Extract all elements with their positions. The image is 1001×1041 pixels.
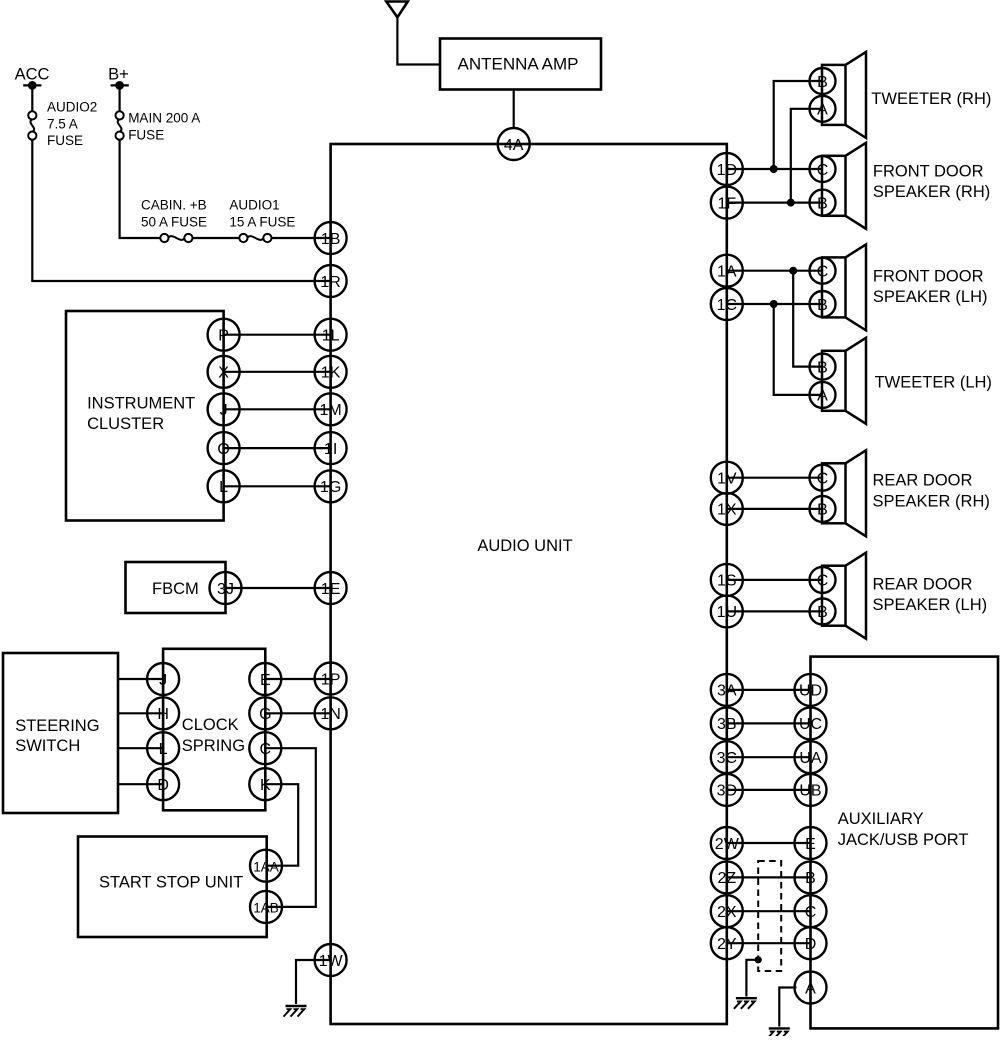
connector 3B (711, 707, 743, 739)
connector 1F (711, 187, 743, 219)
svg-text:X: X (218, 365, 229, 382)
svg-text:TWEETER (RH): TWEETER (RH) (871, 90, 991, 108)
connector 1L (315, 319, 347, 351)
wire 1W to ground (296, 960, 331, 1004)
wire to aux pin E (727, 842, 811, 844)
svg-text:C: C (260, 741, 272, 758)
svg-text:ACC: ACC (15, 66, 50, 84)
wire K to 1AA (265, 784, 298, 866)
connector 1R (315, 265, 347, 297)
svg-text:REAR DOOR: REAR DOOR (873, 472, 973, 490)
pin UB aux (795, 774, 827, 806)
pin C front door LH (810, 258, 836, 284)
ground at shield (734, 998, 757, 1009)
wire ACC to 1R (32, 139, 330, 281)
svg-text:1X: 1X (717, 502, 737, 519)
wire B+ to fuse (118, 85, 120, 111)
svg-text:CLOCK: CLOCK (182, 716, 239, 734)
connector 1P (315, 663, 347, 695)
connector 1K (315, 356, 347, 388)
label AUDIO1 15 A FUSE (229, 198, 295, 230)
wire shield to ground (746, 960, 758, 997)
svg-text:D: D (805, 936, 817, 953)
connector 3A (711, 674, 743, 706)
wire B+ down to fuse row (120, 139, 161, 238)
svg-text:1F: 1F (717, 195, 736, 212)
svg-text:1U: 1U (717, 604, 737, 621)
wire to aux pin UB (727, 789, 811, 791)
svg-text:1N: 1N (320, 706, 340, 723)
wire 1A to front door LH C (727, 270, 823, 272)
pin L instrument cluster (208, 470, 240, 502)
fuse MAIN 200 A (116, 111, 124, 139)
pin L clock spring (147, 732, 179, 764)
fuse AUDIO2 7.5 A (28, 111, 36, 139)
wire between fuses (192, 237, 239, 239)
svg-text:L: L (159, 741, 168, 758)
connector 1E (315, 572, 347, 604)
junction on 1A wire (789, 267, 797, 275)
wire 1U to rear door LH B (727, 610, 823, 612)
fuse CABIN. +B 50 A (160, 234, 192, 242)
wire junction to tweeter LH B (793, 271, 822, 367)
svg-text:2X: 2X (717, 904, 737, 921)
pin D aux (795, 927, 827, 959)
connector 1V (711, 462, 743, 494)
svg-text:1R: 1R (320, 274, 340, 291)
pin B rear door LH (810, 598, 836, 624)
svg-text:3B: 3B (717, 716, 737, 733)
svg-text:K: K (260, 777, 271, 794)
svg-text:3D: 3D (717, 783, 737, 800)
svg-text:FRONT DOOR: FRONT DOOR (873, 268, 984, 286)
label CABIN. +B 50 A FUSE (141, 198, 207, 230)
svg-text:STEERING: STEERING (15, 717, 99, 735)
wire L to 1G (224, 485, 331, 487)
pin UA aux (795, 741, 827, 773)
svg-text:50 A FUSE: 50 A FUSE (141, 214, 207, 229)
pin A tweeter LH (810, 382, 836, 408)
svg-text:REAR DOOR: REAR DOOR (873, 575, 973, 593)
svg-text:1AA: 1AA (253, 860, 279, 875)
pin B aux (795, 861, 827, 893)
svg-text:D: D (157, 777, 169, 794)
wire A to ground (779, 988, 796, 1027)
pin B tweeter RH (810, 68, 836, 94)
wire junction to tweeter RH B (774, 81, 823, 169)
pin X instrument cluster (208, 356, 240, 388)
svg-text:A: A (817, 388, 828, 405)
box AUDIO UNIT (331, 144, 727, 1024)
pin H clock spring (147, 697, 179, 729)
svg-text:1C: 1C (717, 297, 737, 314)
wire to aux pin UD (727, 689, 811, 691)
wire steering switch row 3 (118, 747, 163, 749)
svg-text:H: H (157, 706, 169, 723)
svg-text:L: L (219, 479, 228, 496)
wire P to 1L (224, 334, 331, 336)
box START STOP UNIT (78, 837, 267, 938)
box AUXILIARY JACK/USB PORT (811, 657, 999, 1029)
connector 1X (711, 493, 743, 525)
wire to aux pin C (727, 910, 811, 912)
ground at 1W (284, 1006, 307, 1017)
pin B front door RH (810, 190, 836, 216)
wire junction to tweeter LH A (774, 304, 823, 395)
connector 1G (315, 470, 347, 502)
connector 4A (498, 128, 530, 160)
pin P instrument cluster (208, 319, 240, 351)
wire to aux pin B (727, 876, 811, 878)
svg-text:3A: 3A (717, 683, 737, 700)
svg-text:1E: 1E (321, 581, 341, 598)
wire C to 1AB (265, 748, 316, 907)
connector 1S (711, 564, 743, 596)
connector 1AA (250, 850, 282, 882)
svg-text:C: C (817, 573, 829, 590)
svg-text:FUSE: FUSE (47, 133, 83, 148)
pin C rear door LH (810, 567, 836, 593)
svg-text:3J: 3J (217, 581, 234, 598)
wire to aux pin D (727, 942, 811, 944)
node B+ (108, 66, 129, 90)
wire steering switch row 4 (118, 783, 163, 785)
svg-text:B: B (817, 74, 828, 91)
svg-text:FRONT DOOR: FRONT DOOR (873, 162, 984, 180)
pin B front door LH (810, 291, 836, 317)
svg-text:1L: 1L (322, 328, 340, 345)
svg-text:MAIN 200 A: MAIN 200 A (128, 111, 200, 126)
speaker REAR DOOR SPEAKER (RH) (822, 450, 990, 536)
wire ACC to fuse (31, 85, 33, 111)
svg-text:1AB: 1AB (253, 901, 279, 916)
wire 1C to front door LH B (727, 303, 823, 305)
svg-text:B: B (817, 502, 828, 519)
connector 1N (315, 697, 347, 729)
svg-text:3C: 3C (717, 750, 737, 767)
junction on 1C wire (770, 300, 778, 308)
connector 1I (315, 432, 347, 464)
connector 1B (315, 222, 347, 254)
box ANTENNA AMP (440, 39, 601, 90)
wire O to 1I (224, 447, 331, 449)
svg-text:2W: 2W (715, 836, 740, 853)
svg-text:CLUSTER: CLUSTER (87, 415, 164, 433)
connector 1W (315, 944, 347, 976)
junction on 1F wire (787, 199, 795, 207)
pin A aux (795, 972, 827, 1004)
svg-text:B+: B+ (108, 66, 129, 84)
pin J clock spring (147, 663, 179, 695)
wire to aux pin UC (727, 722, 811, 724)
pin B rear door RH (810, 496, 836, 522)
wire to aux pin UA (727, 756, 811, 758)
svg-text:C: C (805, 904, 817, 921)
pin E aux (795, 827, 827, 859)
connector 2Z (711, 861, 743, 893)
svg-text:A: A (805, 980, 816, 997)
wire steering switch row 1 (118, 678, 163, 680)
label MAIN 200 A FUSE (128, 111, 200, 143)
svg-text:B: B (817, 604, 828, 621)
svg-text:AUDIO1: AUDIO1 (229, 198, 279, 213)
svg-text:E: E (805, 836, 816, 853)
label AUDIO2 7.5 A FUSE (47, 100, 97, 149)
connector 1A (711, 255, 743, 287)
svg-text:SPEAKER (LH): SPEAKER (LH) (873, 288, 988, 306)
antenna symbol (386, 2, 408, 18)
connector 1M (315, 393, 347, 425)
svg-text:7.5 A: 7.5 A (47, 116, 78, 131)
svg-text:2Y: 2Y (717, 936, 737, 953)
svg-text:1D: 1D (717, 162, 737, 179)
pin C rear door RH (810, 465, 836, 491)
junction shield ground (755, 956, 762, 963)
connector 1C (711, 288, 743, 320)
speaker REAR DOOR SPEAKER (LH) (822, 553, 987, 639)
connector 3D (711, 774, 743, 806)
svg-text:SPEAKER (RH): SPEAKER (RH) (873, 183, 990, 201)
pin C clock spring right (249, 732, 281, 764)
svg-text:J: J (220, 402, 228, 419)
svg-text:C: C (817, 162, 829, 179)
svg-text:1V: 1V (717, 471, 737, 488)
pin C front door RH (810, 156, 836, 182)
svg-text:E: E (260, 672, 271, 689)
svg-text:FUSE: FUSE (128, 127, 164, 142)
svg-text:AUXILIARY: AUXILIARY (838, 810, 924, 828)
box CLOCK SPRING (163, 649, 265, 811)
svg-text:SPRING: SPRING (182, 737, 245, 755)
svg-text:1I: 1I (324, 441, 337, 458)
svg-text:START STOP UNIT: START STOP UNIT (99, 873, 243, 891)
svg-text:C: C (817, 471, 829, 488)
svg-text:O: O (217, 441, 229, 458)
wire G to 1N (265, 712, 330, 714)
speaker TWEETER (LH) (822, 338, 992, 424)
fuse AUDIO1 15 A (239, 234, 271, 242)
speaker FRONT DOOR SPEAKER (LH) (822, 244, 988, 330)
connector 2X (711, 895, 743, 927)
svg-text:B: B (817, 359, 828, 376)
svg-text:FBCM: FBCM (152, 580, 199, 598)
svg-text:UA: UA (799, 750, 822, 767)
pin D clock spring (147, 768, 179, 800)
svg-text:SWITCH: SWITCH (15, 737, 80, 755)
wire 1D to front door RH C (727, 168, 823, 170)
wire X to 1K (224, 371, 331, 373)
svg-text:B: B (805, 870, 816, 887)
pin G clock spring right (249, 697, 281, 729)
svg-text:AUDIO UNIT: AUDIO UNIT (477, 537, 572, 555)
svg-text:INSTRUMENT: INSTRUMENT (87, 395, 195, 413)
svg-text:G: G (259, 706, 271, 723)
wire fuse to 1B (271, 237, 330, 239)
pin E clock spring right (249, 663, 281, 695)
svg-text:1M: 1M (319, 402, 341, 419)
svg-text:UB: UB (799, 783, 821, 800)
svg-text:JACK/USB PORT: JACK/USB PORT (838, 831, 969, 849)
svg-text:1K: 1K (321, 365, 341, 382)
speaker TWEETER (RH) (822, 52, 991, 138)
pin B tweeter LH (810, 354, 836, 380)
pin J instrument cluster (208, 393, 240, 425)
wire junction to tweeter RH A (791, 109, 823, 203)
speaker FRONT DOOR SPEAKER (RH) (822, 143, 990, 229)
svg-text:1B: 1B (321, 231, 341, 248)
pin A tweeter RH (810, 96, 836, 122)
connector 3C (711, 741, 743, 773)
wire steering switch row 2 (118, 712, 163, 714)
wire E to 1P (265, 678, 330, 680)
ground at aux A (767, 1028, 790, 1039)
pin UD aux (795, 674, 827, 706)
box FBCM (126, 562, 226, 613)
connector 1U (711, 595, 743, 627)
junction on 1D wire (770, 165, 778, 173)
wire antenna to amp (397, 17, 440, 64)
svg-text:2Z: 2Z (717, 870, 736, 887)
wire J to 1M (224, 408, 331, 410)
svg-text:J: J (159, 672, 167, 689)
wire amp to 4A (513, 90, 515, 129)
pin 3J FBCM (210, 572, 242, 604)
svg-text:SPEAKER (LH): SPEAKER (LH) (873, 596, 988, 614)
pin K clock spring right (249, 768, 281, 800)
svg-text:AUDIO2: AUDIO2 (47, 100, 97, 115)
connector 1AB (250, 891, 282, 923)
svg-text:B: B (817, 195, 828, 212)
pin O instrument cluster (208, 432, 240, 464)
wire 1F to front door RH B (727, 202, 823, 204)
shield dashed box (758, 861, 781, 971)
svg-text:TWEETER (LH): TWEETER (LH) (875, 374, 992, 392)
svg-text:ANTENNA AMP: ANTENNA AMP (458, 55, 579, 74)
wire 1X to rear door RH B (727, 508, 823, 510)
connector 2W (711, 827, 743, 859)
pin C aux (795, 895, 827, 927)
svg-text:C: C (817, 264, 829, 281)
svg-text:1S: 1S (717, 573, 737, 590)
svg-text:1W: 1W (319, 953, 344, 970)
svg-text:15 A FUSE: 15 A FUSE (229, 214, 295, 229)
svg-text:1G: 1G (320, 479, 341, 496)
svg-text:A: A (817, 102, 828, 119)
pin UC aux (795, 707, 827, 739)
connector 2Y (711, 927, 743, 959)
svg-text:CABIN. +B: CABIN. +B (141, 198, 207, 213)
svg-text:B: B (817, 297, 828, 314)
svg-text:1A: 1A (717, 264, 737, 281)
box STEERING SWITCH (3, 653, 118, 813)
box INSTRUMENT CLUSTER (66, 311, 224, 521)
connector 1D (711, 153, 743, 185)
wire 1V to rear door RH C (727, 477, 823, 479)
svg-text:SPEAKER (RH): SPEAKER (RH) (873, 493, 990, 511)
wire 3J to 1E (226, 587, 331, 589)
svg-text:UD: UD (799, 683, 822, 700)
svg-text:UC: UC (799, 716, 822, 733)
node ACC (15, 66, 50, 90)
wire 1S to rear door LH C (727, 579, 823, 581)
svg-text:P: P (218, 328, 229, 345)
